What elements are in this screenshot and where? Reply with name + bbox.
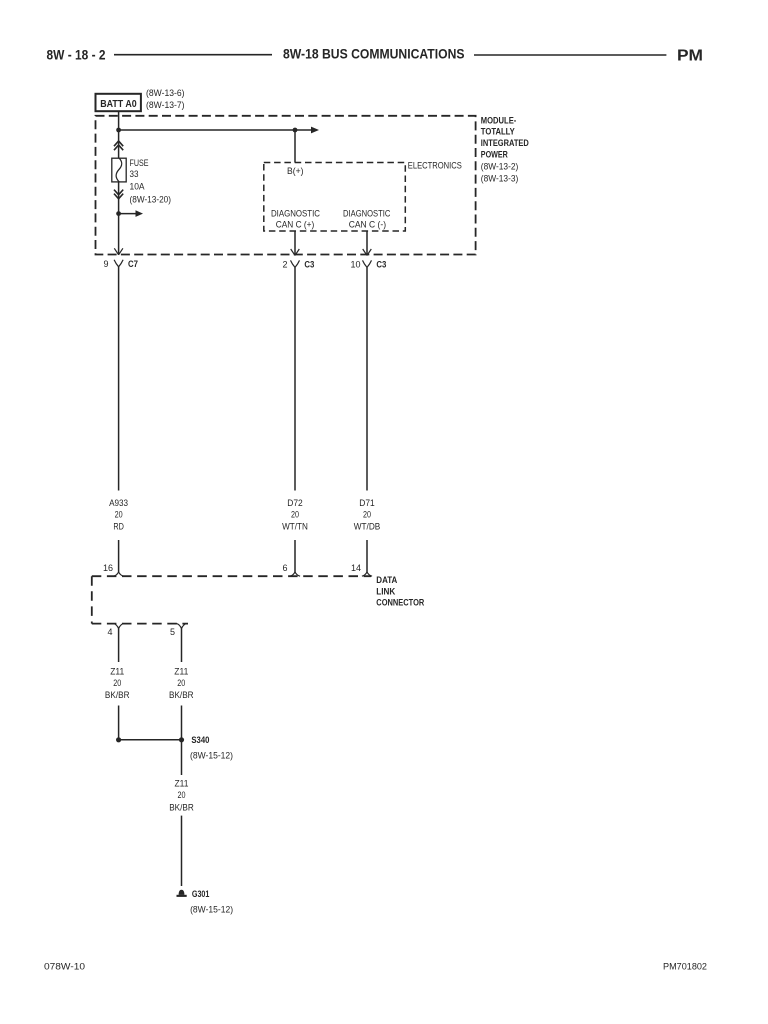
svg-text:8W - 18 - 2: 8W - 18 - 2 bbox=[47, 48, 106, 63]
ground G301 symbol bbox=[177, 890, 187, 897]
wire D71 lower segment bbox=[366, 540, 368, 572]
svg-text:C7: C7 bbox=[128, 259, 138, 270]
wire CAN C (+) down with arrowhead bbox=[291, 231, 300, 255]
svg-text:5: 5 bbox=[170, 627, 175, 637]
label Z11 20 BK/BR (bottom) bbox=[169, 778, 194, 812]
svg-text:ELECTRONICS: ELECTRONICS bbox=[408, 161, 462, 171]
node junction dot below fuse bbox=[116, 211, 121, 216]
wire CAN C (-) down with arrowhead bbox=[363, 231, 372, 255]
connector C7 pin 9 symbol bbox=[114, 260, 123, 267]
label Z11 20 BK/BR (right) bbox=[169, 667, 194, 701]
battery feed box BATT A0 bbox=[96, 94, 141, 111]
svg-text:LINK: LINK bbox=[376, 586, 395, 597]
wire down to fuse bbox=[118, 130, 120, 158]
connector symbol pin 5 bbox=[177, 624, 187, 629]
svg-text:16: 16 bbox=[103, 563, 113, 573]
wire A933 upper segment bbox=[118, 267, 120, 491]
data link connector top dashed line bbox=[92, 575, 371, 577]
wire Z11 pin5 lower segment bbox=[181, 706, 183, 739]
svg-text:(8W-13-7): (8W-13-7) bbox=[146, 100, 185, 110]
connector C3 pin 2 symbol bbox=[291, 260, 300, 267]
svg-text:20: 20 bbox=[113, 678, 121, 688]
wire Z11 pin4 upper segment bbox=[118, 629, 120, 662]
svg-text:PM: PM bbox=[677, 48, 703, 65]
svg-text:10: 10 bbox=[350, 259, 360, 269]
svg-text:WT/TN: WT/TN bbox=[282, 522, 308, 532]
svg-text:C3: C3 bbox=[376, 259, 386, 270]
svg-text:PM701802: PM701802 bbox=[663, 962, 707, 972]
svg-text:A933: A933 bbox=[109, 498, 128, 508]
svg-text:DIAGNOSTIC: DIAGNOSTIC bbox=[271, 209, 320, 219]
svg-text:4: 4 bbox=[107, 627, 112, 637]
svg-text:BK/BR: BK/BR bbox=[169, 802, 194, 812]
svg-text:TOTALLY: TOTALLY bbox=[481, 127, 516, 138]
node junction dot at B(+) branch bbox=[293, 128, 298, 133]
label DIAGNOSTIC CAN C (+) bbox=[271, 209, 320, 230]
svg-text:D71: D71 bbox=[359, 498, 375, 508]
svg-text:(8W-13-6): (8W-13-6) bbox=[146, 88, 185, 98]
svg-text:BK/BR: BK/BR bbox=[105, 690, 130, 700]
wire branch arrow right bbox=[119, 210, 143, 217]
svg-text:(8W-15-12): (8W-15-12) bbox=[190, 904, 233, 914]
svg-text:DATA: DATA bbox=[376, 575, 397, 586]
svg-text:8W-18 BUS COMMUNICATIONS: 8W-18 BUS COMMUNICATIONS bbox=[283, 46, 465, 62]
in-line connector chevrons above fuse bbox=[114, 141, 123, 150]
label DIAGNOSTIC CAN C (-) bbox=[343, 209, 391, 230]
svg-text:(8W-13-2): (8W-13-2) bbox=[481, 161, 519, 171]
label A933 20 RD bbox=[109, 498, 128, 532]
svg-text:(8W-13-3): (8W-13-3) bbox=[481, 173, 519, 183]
wire from BATT A0 down bbox=[118, 111, 120, 130]
svg-text:Z11: Z11 bbox=[174, 667, 188, 677]
module label MODULE-TOTALLY INTEGRATED POWER bbox=[481, 115, 529, 160]
electronics dashed box bbox=[264, 163, 406, 232]
connector flare pin 16 bbox=[114, 572, 124, 576]
svg-text:2: 2 bbox=[282, 259, 287, 269]
svg-text:RD: RD bbox=[113, 522, 124, 532]
connector flare pin 14 bbox=[362, 572, 372, 576]
svg-text:WT/DB: WT/DB bbox=[354, 522, 381, 532]
svg-text:14: 14 bbox=[351, 563, 361, 573]
svg-text:20: 20 bbox=[291, 510, 299, 520]
module TIPM dashed box bbox=[96, 116, 476, 255]
splice S340 bbox=[116, 737, 184, 742]
svg-text:(8W-13-20): (8W-13-20) bbox=[130, 194, 172, 204]
svg-text:(8W-15-12): (8W-15-12) bbox=[190, 750, 233, 760]
wire Z11 to ground bbox=[181, 816, 183, 886]
svg-text:20: 20 bbox=[115, 510, 123, 520]
node junction dot at battery feed bbox=[116, 128, 121, 133]
header rule right bbox=[474, 54, 666, 56]
label D71 20 WT/DB bbox=[354, 498, 381, 532]
svg-text:D72: D72 bbox=[287, 498, 303, 508]
svg-text:INTEGRATED: INTEGRATED bbox=[481, 138, 529, 149]
svg-text:B(+): B(+) bbox=[287, 166, 304, 176]
svg-text:BK/BR: BK/BR bbox=[169, 690, 194, 700]
wire A933 lower segment bbox=[118, 540, 120, 572]
svg-text:POWER: POWER bbox=[481, 150, 508, 161]
fuse F33 bbox=[112, 158, 126, 182]
label DATA LINK CONNECTOR bbox=[376, 575, 424, 609]
wire B(+) entering electronics bbox=[294, 130, 296, 163]
wire D72 lower segment bbox=[294, 540, 296, 572]
label FUSE 33 10A (8W-13-20) bbox=[130, 158, 172, 204]
svg-text:BATT A0: BATT A0 bbox=[100, 99, 137, 110]
wire D72 upper segment bbox=[294, 267, 296, 490]
svg-text:DIAGNOSTIC: DIAGNOSTIC bbox=[343, 209, 391, 219]
svg-text:Z11: Z11 bbox=[175, 778, 189, 788]
svg-text:S340: S340 bbox=[191, 735, 209, 746]
wire Z11 pin4 lower segment bbox=[118, 706, 120, 739]
wire Z11 pin5 upper segment bbox=[181, 629, 183, 662]
svg-text:Z11: Z11 bbox=[110, 667, 124, 677]
connector C3 pin 10 symbol bbox=[363, 260, 372, 267]
svg-text:CAN C (+): CAN C (+) bbox=[276, 219, 315, 229]
svg-text:20: 20 bbox=[363, 510, 371, 520]
svg-text:078W-10: 078W-10 bbox=[44, 962, 85, 972]
wire D71 upper segment bbox=[366, 267, 368, 490]
connector symbol pin 4 bbox=[114, 624, 124, 629]
data link connector left dashed edge bbox=[91, 576, 93, 623]
wire down into connector C7 with arrowhead bbox=[114, 214, 123, 255]
wire Z11 below splice upper segment bbox=[181, 740, 183, 775]
label D72 20 WT/TN bbox=[282, 498, 308, 532]
svg-text:MODULE-: MODULE- bbox=[481, 115, 517, 126]
svg-text:6: 6 bbox=[282, 563, 287, 573]
in-line connector chevrons below fuse bbox=[114, 190, 123, 199]
wire horizontal B(+) feed with arrow bbox=[119, 127, 319, 134]
svg-text:20: 20 bbox=[177, 678, 185, 688]
svg-text:10A: 10A bbox=[130, 182, 145, 192]
connector flare pin 6 bbox=[290, 572, 300, 576]
svg-text:20: 20 bbox=[178, 790, 186, 800]
svg-text:33: 33 bbox=[130, 169, 139, 179]
svg-text:CONNECTOR: CONNECTOR bbox=[376, 598, 424, 609]
svg-text:G301: G301 bbox=[192, 889, 210, 900]
header rule left bbox=[114, 54, 272, 56]
svg-text:CAN C (-): CAN C (-) bbox=[349, 219, 386, 229]
wire below fuse bbox=[118, 182, 120, 214]
svg-text:FUSE: FUSE bbox=[130, 158, 149, 168]
label Z11 20 BK/BR (left) bbox=[105, 667, 130, 701]
svg-text:C3: C3 bbox=[304, 259, 314, 270]
data link connector bottom dashed line bbox=[92, 623, 188, 625]
svg-text:9: 9 bbox=[103, 259, 108, 269]
